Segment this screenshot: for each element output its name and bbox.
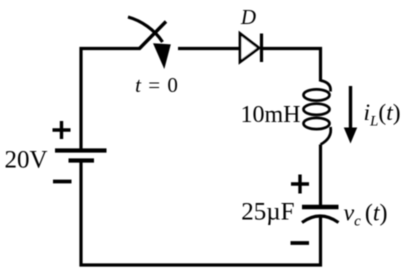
svg-text:10mH: 10mH (241, 102, 301, 128)
battery minus sign (53, 180, 72, 184)
wire diode to top-right corner (262, 49, 321, 82)
svg-text:D: D (240, 5, 256, 29)
switch S1 arrowhead (153, 43, 171, 69)
svg-text:iL(t): iL(t) (364, 100, 401, 130)
svg-text:20V: 20V (4, 147, 47, 174)
diode D triangle (240, 34, 259, 63)
capacitor minus sign (291, 241, 310, 245)
battery V1 long plate (55, 148, 107, 152)
battery V1 plus sign (53, 128, 71, 131)
svg-text:vc(t): vc(t) (344, 201, 388, 230)
battery V1 short plate (69, 158, 95, 162)
inductor L1 entry curve (321, 81, 331, 92)
svg-text:25µF: 25µF (241, 199, 294, 226)
inductor L1 loop 1 (304, 89, 330, 100)
wire inductor to capacitor (319, 145, 322, 208)
switch S1 blade (139, 22, 166, 50)
wire top-left segment (81, 49, 140, 151)
capacitor plus sign (291, 182, 309, 185)
inductor L1 loop 2 (304, 104, 330, 115)
svg-text:t = 0: t = 0 (135, 73, 179, 97)
current arrow iL (349, 86, 352, 129)
inductor L1 loop 3 (304, 118, 330, 129)
capacitor C1 bottom plate (curved) (302, 216, 339, 223)
diode D cathode bar (260, 34, 263, 63)
wire battery to bottom, bottom wire, bottom-right up to capacitor (81, 161, 321, 266)
wire switch to diode (178, 47, 240, 50)
switch S1 closing arc (128, 17, 163, 42)
inductor L1 exit curve (321, 127, 331, 145)
capacitor C1 top plate (302, 205, 339, 209)
